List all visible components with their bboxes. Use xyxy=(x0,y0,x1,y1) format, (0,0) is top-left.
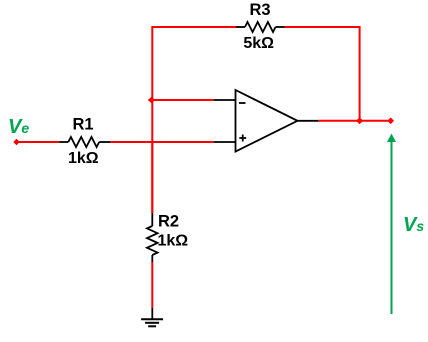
wire: output horizontal (red) xyxy=(318,120,390,122)
wire: top feedback horizontal left (red) xyxy=(152,26,236,28)
svg-text:R2: R2 xyxy=(158,213,179,231)
wire: R2 to ground (red) xyxy=(151,262,153,308)
svg-text:R1: R1 xyxy=(72,116,93,134)
svg-text:Ve: Ve xyxy=(8,116,29,138)
node junction output/feedback xyxy=(356,117,363,124)
svg-text:1kΩ: 1kΩ xyxy=(158,233,189,250)
resistor R1 xyxy=(59,137,110,147)
svg-text:1kΩ: 1kΩ xyxy=(68,150,99,167)
arrow Vs (green) xyxy=(387,134,396,315)
svg-text:Vs: Vs xyxy=(403,214,424,236)
wire: top feedback horizontal right (red) xyxy=(285,26,360,28)
svg-text:5kΩ: 5kΩ xyxy=(243,35,274,52)
wire: right feedback vertical (red) xyxy=(359,26,361,121)
ground xyxy=(141,308,163,326)
resistor R3 xyxy=(236,22,285,32)
wire: input from Ve to R1 (red) xyxy=(17,141,60,143)
node junction at inverting input branch xyxy=(148,97,155,103)
node Vs endpoint xyxy=(387,118,394,125)
resistor R2 xyxy=(147,213,158,262)
wire: R1 to non-inverting input (red) xyxy=(110,141,214,143)
svg-text:R3: R3 xyxy=(249,1,270,19)
wire: inverting input lead (black) xyxy=(214,99,236,101)
wire: non-inverting input lead (black) xyxy=(214,141,236,143)
op-amp U1 xyxy=(236,90,298,152)
wire: R2 branch vertical red upper xyxy=(151,141,153,213)
wire: left vertical from top corner down to R2 (red) xyxy=(151,26,153,213)
wire: op-amp output lead (black) xyxy=(298,120,319,122)
wire: inverting input horizontal (red) xyxy=(152,99,214,101)
node Ve endpoint xyxy=(13,139,19,145)
